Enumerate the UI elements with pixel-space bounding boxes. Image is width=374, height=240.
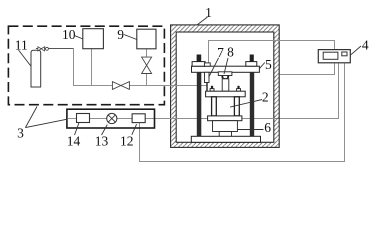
svg-text:13: 13 bbox=[95, 133, 109, 148]
chamber 1 outer wall hatched bbox=[171, 25, 280, 147]
sensor 7 body bbox=[205, 72, 210, 82]
pipe from box 9 bbox=[146, 49, 148, 57]
wire W3 recorder to lower platen bbox=[242, 63, 339, 118]
svg-text:12: 12 bbox=[120, 133, 134, 148]
base plate bbox=[191, 136, 260, 142]
svg-text:11: 11 bbox=[15, 37, 28, 52]
circulator 13 bbox=[107, 113, 117, 123]
left stud bbox=[211, 86, 213, 89]
pedestal 6 block bbox=[213, 121, 238, 132]
box 12 bbox=[132, 114, 145, 123]
pedestal stem bbox=[219, 132, 231, 137]
specimen right post bbox=[234, 97, 239, 116]
svg-text:3: 3 bbox=[17, 126, 24, 141]
cylinder valve line bbox=[36, 48, 74, 50]
svg-text:4: 4 bbox=[362, 37, 369, 52]
sensor 7 rod bbox=[206, 83, 208, 92]
svg-text:6: 6 bbox=[264, 120, 271, 135]
recorder box 4 bbox=[318, 50, 350, 63]
ram block 8 bbox=[218, 72, 232, 76]
svg-text:9: 9 bbox=[117, 27, 124, 42]
chamber 1 inner cavity bbox=[176, 32, 274, 142]
left washer bbox=[192, 62, 205, 67]
wire W3 inside chamber bbox=[242, 118, 275, 120]
valve on manifold bbox=[112, 82, 129, 90]
cylinder valve bowtie bbox=[38, 47, 45, 51]
dashed enclosure 3 bbox=[8, 26, 164, 105]
pipeline assembly box bbox=[67, 109, 155, 128]
svg-text:5: 5 bbox=[265, 57, 272, 72]
sensor connector box bbox=[204, 63, 210, 66]
press crosshead plate 5 bbox=[192, 66, 260, 72]
right bolt bbox=[250, 55, 254, 62]
piston bbox=[222, 79, 229, 91]
right washer bbox=[246, 62, 257, 67]
svg-text:8: 8 bbox=[227, 45, 234, 60]
upper platen bbox=[206, 91, 246, 97]
gas cylinder 11 bbox=[31, 50, 41, 87]
wire W4 recorder to sensor 12 bbox=[140, 63, 345, 161]
left column bbox=[197, 72, 202, 136]
left bolt bbox=[197, 55, 202, 62]
box 14 bbox=[77, 114, 90, 123]
pipe from box 10 bbox=[91, 49, 93, 86]
lower platen 2 bbox=[208, 116, 242, 121]
wire W1 recorder to sensor 7 bbox=[209, 41, 335, 63]
gas pipe manifold bbox=[74, 49, 113, 86]
box 10 bbox=[83, 29, 104, 49]
pipe through assembly bbox=[68, 118, 77, 120]
valve under box 9 bbox=[142, 57, 152, 73]
spherical seat bbox=[222, 76, 229, 79]
cylinder gauge circle bbox=[45, 47, 48, 50]
right column bbox=[250, 72, 254, 136]
right stud bbox=[237, 86, 239, 89]
svg-text:2: 2 bbox=[262, 89, 269, 104]
wire W1 inside chamber bbox=[209, 41, 281, 63]
specimen left post bbox=[212, 97, 217, 116]
svg-text:10: 10 bbox=[62, 27, 76, 42]
svg-text:14: 14 bbox=[67, 133, 81, 148]
wire W2 recorder to chamber wall bbox=[280, 63, 335, 74]
box 9 bbox=[137, 29, 156, 49]
